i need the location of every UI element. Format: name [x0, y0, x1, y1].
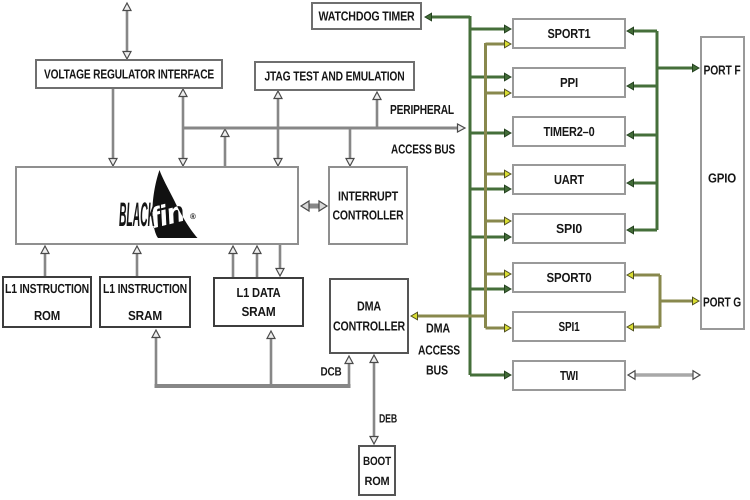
wire: DCB riser to L1 data SRAM [267, 331, 275, 386]
svg-text:BLACK: BLACK [119, 196, 156, 234]
svg-text:TIMER2–0: TIMER2–0 [544, 124, 595, 139]
wire: olive stub to UART left [486, 170, 512, 178]
wire: olive stub to SPI1 left [486, 324, 512, 332]
svg-text:UART: UART [554, 172, 584, 187]
svg-text:ROM: ROM [34, 308, 60, 323]
wire: green stub to SPI0 left [470, 233, 511, 241]
wire: green stub to TIMER2-0 right [627, 131, 657, 139]
wire: green stub to SPORT0 left [470, 285, 511, 293]
block: SPORT0 [513, 263, 625, 292]
wire: L1 data SRAM to core arrow 2 [253, 246, 261, 277]
wire: green peripheral bus vertical main [469, 16, 472, 375]
svg-text:SPI0: SPI0 [556, 221, 582, 236]
svg-text:PERIPHERAL: PERIPHERAL [390, 102, 454, 117]
wire: green stub to TWI left [470, 371, 511, 379]
svg-text:VOLTAGE REGULATOR INTERFACE: VOLTAGE REGULATOR INTERFACE [44, 67, 214, 82]
wire: green arrow to PORT F [657, 64, 699, 72]
logo: Blackfin (BLACK + fin script + shark fin) [119, 170, 198, 238]
wire: DCB bus horizontal [155, 384, 351, 388]
wire: VRI-core bidirectional arrow [179, 89, 187, 166]
block: SPI0 [513, 214, 625, 243]
block: WATCHDOG TIMER [312, 3, 421, 29]
svg-text:CONTROLLER: CONTROLLER [333, 319, 406, 334]
wire: green bus vertical right of peripherals [656, 31, 659, 230]
svg-text:PORT F: PORT F [704, 63, 741, 78]
block: VOLTAGE REGULATOR INTERFACE [36, 60, 222, 88]
wire: olive arrow to PORT G [660, 297, 699, 305]
block: L1 DATA SRAM [214, 278, 303, 326]
block: TWI [513, 361, 625, 390]
wire: olive stub to SPI1 right [627, 323, 660, 331]
wire: DEB bus DMA controller to boot ROM [370, 355, 378, 444]
svg-text:GPIO: GPIO [708, 171, 736, 186]
wire: core to L1 data SRAM arrow [276, 245, 284, 276]
wire: olive stub to SPI0 left [486, 217, 512, 225]
svg-text:PPI: PPI [560, 75, 578, 90]
svg-text:ACCESS BUS: ACCESS BUS [391, 142, 455, 157]
svg-text:JTAG TEST AND EMULATION: JTAG TEST AND EMULATION [265, 69, 405, 84]
wire: L1 instruction SRAM to core arrow [133, 246, 141, 276]
svg-text:BOOT: BOOT [363, 454, 392, 468]
wire: TWI external double arrow [628, 371, 700, 380]
wire: JTAG-core bidirectional arrow [274, 91, 282, 166]
wire: peripheral access bus horizontal [183, 124, 465, 132]
wire: DMA access bus horizontal to DMA controller [411, 312, 486, 320]
block: PPI [513, 68, 625, 97]
svg-text:SPORT0: SPORT0 [547, 270, 592, 285]
block: BOOT ROM [359, 446, 395, 495]
wire: green stub to PPI right [627, 82, 657, 90]
block: INTERRUPT CONTROLLER [329, 167, 407, 244]
svg-text:DCB: DCB [321, 364, 342, 378]
svg-text:L1 DATA: L1 DATA [237, 285, 282, 300]
block: TIMER2-0 [513, 117, 625, 146]
wire: peripheral bus to interrupt controller arrow [346, 128, 354, 166]
block: Blackfin processor core [16, 167, 298, 244]
wire: DCB riser to DMA controller [345, 356, 353, 386]
svg-text:DMA: DMA [426, 321, 451, 336]
wire: DCB riser to L1 instruction SRAM [152, 330, 160, 386]
wire: olive stub to SPORT0 right [627, 271, 660, 279]
wire: green arrow to watchdog timer [425, 13, 470, 21]
wire: core to peripheral access bus arrow [221, 129, 229, 166]
block: SPORT1 [513, 19, 625, 48]
wire: green stub to SPORT1 left [470, 25, 511, 33]
wire: green stub to TIMER2-0 left [470, 129, 511, 137]
svg-text:INTERRUPT: INTERRUPT [338, 189, 398, 204]
svg-text:ROM: ROM [365, 474, 390, 488]
wire: olive bus vertical right of peripherals [659, 275, 662, 327]
svg-text:TWI: TWI [560, 368, 578, 383]
svg-text:DEB: DEB [379, 411, 397, 425]
block: L1 INSTRUCTION SRAM [100, 277, 190, 327]
svg-text:SRAM: SRAM [242, 304, 276, 319]
block: SPI1 [513, 312, 625, 341]
wire: green stub to PPI left [470, 73, 511, 81]
svg-text:WATCHDOG TIMER: WATCHDOG TIMER [319, 9, 416, 24]
block: DMA CONTROLLER [330, 279, 408, 353]
block: JTAG TEST AND EMULATION [255, 62, 414, 90]
wire: VRI to core line with down arrow [109, 89, 117, 166]
svg-text:L1 INSTRUCTION: L1 INSTRUCTION [103, 281, 187, 296]
wire: peripheral bus to JTAG arrow [373, 92, 381, 128]
svg-text:SRAM: SRAM [128, 308, 162, 323]
svg-text:CONTROLLER: CONTROLLER [333, 208, 405, 223]
svg-text:SPORT1: SPORT1 [548, 26, 591, 41]
svg-text:ACCESS: ACCESS [418, 343, 460, 358]
wire: olive DMA bus vertical main [484, 43, 487, 328]
wire: olive stub to SPORT1 left [486, 40, 512, 48]
svg-text:PORT G: PORT G [703, 295, 741, 310]
wire: L1 instruction ROM to core arrow [41, 246, 49, 277]
svg-text:SPI1: SPI1 [559, 319, 580, 334]
svg-text:L1 INSTRUCTION: L1 INSTRUCTION [5, 281, 89, 296]
block: PORT F / GPIO / PORT G [701, 37, 744, 329]
wire: green stub to SPORT1 right [627, 27, 657, 35]
wire: external voltage regulator arrow (above VRI) [123, 3, 131, 59]
wire: core-interrupt controller double arrow [301, 201, 327, 211]
wire: green stub to UART left [470, 185, 511, 193]
wire: L1 data SRAM to core arrow 1 [229, 246, 237, 277]
wire: green stub to SPI0 right [627, 226, 657, 234]
svg-text:BUS: BUS [426, 363, 448, 378]
wire: green stub to UART right [627, 179, 657, 187]
block: UART [513, 165, 625, 194]
svg-text:DMA: DMA [357, 299, 382, 314]
wire: olive stub to PPI left [486, 89, 512, 97]
wire: olive stub to SPORT0 left [486, 270, 512, 278]
svg-text:®: ® [190, 212, 196, 221]
block: L1 INSTRUCTION ROM [3, 277, 91, 327]
